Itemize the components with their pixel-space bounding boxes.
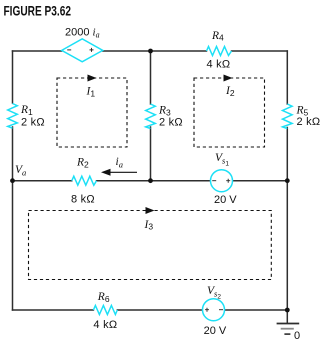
svg-text:4 kΩ: 4 kΩ xyxy=(93,319,117,331)
svg-text:2 kΩ: 2 kΩ xyxy=(297,116,321,128)
svg-text:R6: R6 xyxy=(97,291,110,304)
svg-text:20 V: 20 V xyxy=(214,194,237,206)
svg-text:2 kΩ: 2 kΩ xyxy=(21,117,45,129)
svg-text:0: 0 xyxy=(294,330,300,342)
svg-text:R1: R1 xyxy=(20,104,33,117)
svg-text:R2: R2 xyxy=(76,157,89,170)
svg-text:R4: R4 xyxy=(211,30,224,43)
svg-text:20 V: 20 V xyxy=(204,325,227,337)
svg-text:I1: I1 xyxy=(86,86,96,99)
svg-text:I2: I2 xyxy=(225,85,235,98)
svg-text:R3: R3 xyxy=(158,105,171,118)
svg-text:8 kΩ: 8 kΩ xyxy=(71,194,95,206)
svg-text:I3: I3 xyxy=(144,219,154,232)
svg-text:4 kΩ: 4 kΩ xyxy=(207,59,231,71)
svg-text:FIGURE P3.62: FIGURE P3.62 xyxy=(4,3,72,19)
svg-text:2000 ia: 2000 ia xyxy=(65,26,100,39)
svg-text:2 kΩ: 2 kΩ xyxy=(159,117,183,129)
